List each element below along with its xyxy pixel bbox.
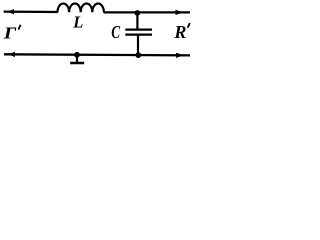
- svg-text:C: C: [111, 23, 120, 42]
- svg-text:Γ: Γ: [3, 24, 17, 43]
- svg-text:R: R: [173, 22, 186, 42]
- svg-text:L: L: [72, 13, 83, 32]
